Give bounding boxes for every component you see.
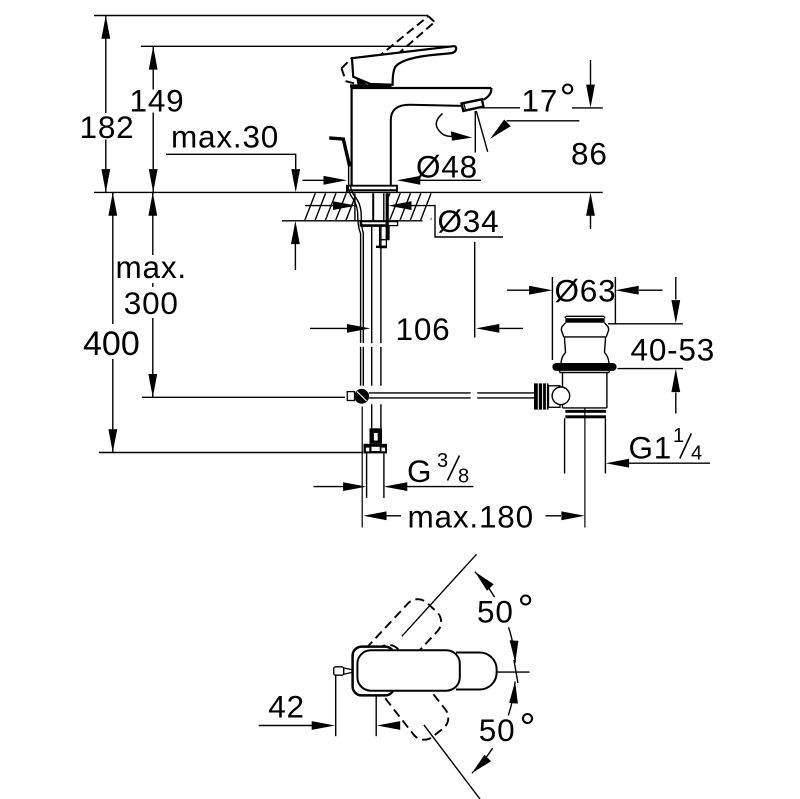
lever handle raised dashed outline [342,16,435,84]
deck hatching [305,193,442,221]
arrowhead 86 down [586,85,595,108]
wire Ø63 extension left [551,277,553,360]
shank right thick edge [386,193,389,239]
shank step bracket [380,226,389,240]
arrowhead max.30 up [291,221,300,244]
arrowhead arc upper outer [475,572,494,591]
handle base shadow triangle [356,78,367,85]
drain upper bell left [561,323,565,337]
arrowhead 86 up [586,192,595,215]
drain neck right [605,337,610,363]
svg-text:max.: max. [116,249,187,285]
wire max.30 leader [166,154,296,169]
water flow swivel arc [436,114,451,137]
svg-text:1: 1 [673,425,684,447]
drain bell mid line [564,336,607,338]
arrowhead Ø48 left [324,176,347,185]
dimension max.30 lower arrow line [294,244,296,270]
faucet body left edge [351,88,353,186]
tailpipe [564,418,566,473]
pop-up rod lower extension [361,406,363,527]
washer under deck [360,222,397,226]
dimension 149 vertical line [152,46,154,192]
arrowhead Ø48 right [397,176,420,185]
svg-text:42: 42 [268,689,305,725]
arrowhead max.30 down [291,169,300,192]
drain plug disk [566,315,604,317]
arrowhead max.180 left [363,511,386,520]
svg-text:max.180: max.180 [408,499,534,535]
handle grip top view [357,650,459,691]
svg-text:G: G [407,453,432,489]
arrowhead arc lower outer [472,755,491,773]
spout right end curve [483,88,491,100]
shank pipe lines in hole [372,193,374,221]
dimension Ø34 lines [305,205,342,207]
dimension Ø48 lines [303,179,325,181]
arrowhead Ø63 right [615,286,638,295]
dimension G3/8 lines [314,486,345,488]
svg-text:Ø63: Ø63 [555,272,617,308]
dimension 86 vertical line [590,60,592,229]
dimension 42 [259,675,377,736]
arrowhead max.180 right [561,511,584,520]
arrowhead arc lower inner [509,681,518,703]
horizontal actuating rod [369,392,534,394]
spout underside [391,105,462,186]
arrowhead G1 1/4 [606,459,629,468]
arrowhead 106 right [476,324,499,333]
arrowhead Ø34 left [333,201,356,210]
arrowhead 40-53 down [671,300,680,323]
arrowhead max.300 top [148,192,157,215]
wire spout outlet tilted line 17deg [476,111,487,152]
svg-text:40-53: 40-53 [631,332,716,368]
radial line 50deg up [402,554,477,636]
label 50deg upper [477,588,534,632]
wire 400 reference line [99,452,363,454]
dashed handle rotated down 50deg [359,640,454,746]
arrowhead 182 top [101,16,110,39]
arrowhead 149 bottom [149,169,158,192]
wire 40-53 top reference [608,323,683,325]
arrowhead 106 left [347,324,370,333]
tailpipe collar [565,410,606,413]
svg-text:Ø34: Ø34 [438,203,500,239]
swivel axis line [497,671,530,673]
arrowhead 149 top [149,46,158,69]
wire reference line 149 [141,45,456,47]
dimension 182 vertical line [105,16,107,193]
arrowhead max.300 bottom [148,374,157,397]
arrowhead 400 bottom [108,429,117,452]
svg-text:3: 3 [437,450,448,472]
wire 40-53 bottom reference [618,368,684,370]
radial line 50deg down [424,725,480,799]
dimension 400 vertical line [112,192,114,452]
pop-up rod curve in shank [348,186,361,386]
G3/8 connector [364,428,388,498]
dimension G1 1/4 leader [627,462,710,464]
arc 50deg lower [472,681,515,773]
handle base shadow band [350,84,392,87]
swivel axis tick [514,660,518,683]
drain body bottom [563,407,607,409]
dimension Ø63 lines [507,289,531,291]
lever handle solid [352,46,456,85]
arrows group [101,16,680,521]
arrowhead arc upper inner [510,640,519,662]
svg-text:17°: 17° [522,77,577,121]
svg-text:149: 149 [130,82,185,118]
label 50deg lower [479,706,536,750]
supply pipe below deck [371,226,373,428]
handle hub top view [353,647,395,696]
svg-text:4: 4 [691,443,702,465]
base flange [347,186,397,193]
drain neck left [561,337,566,363]
fraction slash G1 1/4 [680,434,692,459]
wire max.300 reference line [142,396,345,398]
svg-text:400: 400 [83,325,140,363]
arrowhead 17deg leader [490,120,511,139]
pop-up lever rod above deck [329,138,350,167]
svg-text:50°: 50° [477,588,534,632]
svg-text:Ø48: Ø48 [416,148,478,184]
dimension 106 lines [310,327,349,329]
faucet body top line [351,87,492,89]
arrowhead water swivel [451,131,473,140]
arrowhead G3/8 left [343,482,366,491]
wire deck top line [94,191,603,193]
wire Ø63 extension right [614,277,616,324]
svg-text:300: 300 [124,285,179,321]
dashed handle rotated up 50deg [347,594,446,697]
arrowhead G3/8 right [384,482,407,491]
dimension max.180 line [386,515,401,517]
arrowhead 42 right [377,721,400,730]
drain knurled knob [534,383,570,409]
pop-up rod knob top view [334,667,344,675]
wire 17 degree label underline [478,107,521,109]
arrowhead Ø63 left [529,286,552,295]
arc 50deg upper [475,572,515,663]
arrowhead 40-53 up [671,369,680,392]
wire top reference line 182 [94,15,429,17]
svg-text:182: 182 [80,109,135,145]
dimension max.300 vertical line [152,192,154,397]
rod stub left of ball [347,392,354,401]
arrowhead Ø34 right [388,201,411,210]
arrowhead 400 top [108,192,117,215]
aerator [462,99,484,111]
dimension 40-53 vertical lines [675,277,677,300]
drain body sides [562,373,564,408]
arrowhead 42 left [312,721,335,730]
fraction slash G3/8 [448,456,460,481]
drain flange below gasket [560,371,610,373]
svg-text:G1: G1 [629,430,673,466]
arrowhead 182 bottom [101,169,110,192]
svg-text:106: 106 [396,311,451,347]
under-deck assembly [347,186,534,528]
plug rod in tailpipe [584,408,586,528]
wire 17 degree leader line [507,120,580,122]
svg-text:8: 8 [458,466,469,488]
wire outlet extension line for 106 [474,242,476,338]
drain gasket [552,363,616,371]
wire spout outlet plumb line [474,111,476,153]
deck hole left edge [354,193,356,220]
drain upper bell right [604,323,608,337]
handle tip capsule [456,653,497,690]
svg-text:86: 86 [571,135,608,171]
svg-text:max.30: max.30 [171,118,279,154]
svg-text:50°: 50° [479,706,536,750]
ball joint [354,389,369,404]
wire deck bottom line [282,220,423,222]
